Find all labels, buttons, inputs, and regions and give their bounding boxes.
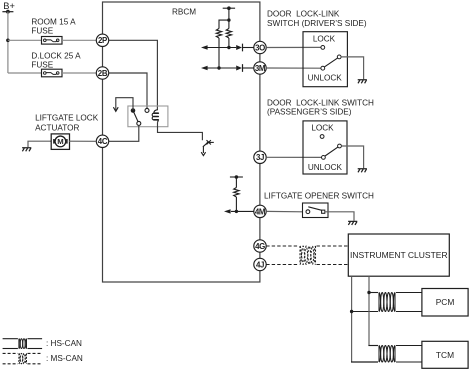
svg-text:ACTUATOR: ACTUATOR — [35, 123, 79, 132]
X mark — [207, 140, 211, 144]
relay common dot — [131, 108, 136, 113]
opener lever — [308, 207, 322, 211]
passenger switch box — [303, 121, 347, 174]
TCM box — [422, 341, 468, 368]
lever (driver) — [324, 58, 337, 67]
instrument cluster box — [348, 234, 449, 276]
svg-text:UNLOCK: UNLOCK — [308, 163, 343, 172]
diode D2 (3M) — [236, 66, 242, 71]
node 4M — [254, 205, 266, 217]
arrow left 4M row — [224, 209, 231, 213]
lever (passenger) — [325, 147, 338, 156]
fuse D.LOCK 25 A — [42, 69, 63, 77]
wire 3M row — [208, 67, 237, 69]
ground (actuator) — [22, 147, 31, 149]
ground (opener switch) — [348, 220, 357, 222]
svg-text:4M: 4M — [255, 207, 266, 216]
node 4J — [254, 258, 266, 270]
svg-text:D.LOCK 25 A: D.LOCK 25 A — [31, 52, 81, 61]
motor brush left — [53, 139, 55, 144]
arrow left 3O row — [201, 45, 208, 49]
svg-text:LIFTGATE LOCK: LIFTGATE LOCK — [35, 114, 99, 123]
junction dot PCM high — [367, 291, 370, 294]
wire 3M to UNLOCK contact — [266, 67, 321, 69]
resistor R3 — [234, 188, 239, 198]
B+ supply bar — [2, 11, 13, 13]
wire ROOM fuse to 2P — [62, 39, 96, 41]
wire cluster left drop (CAN-L) — [351, 276, 353, 362]
svg-text:LOCK: LOCK — [311, 124, 334, 133]
twisted pair HS-CAN to TCM — [378, 346, 380, 363]
wire 2P to relay coil — [109, 40, 158, 110]
wire PCM low — [352, 311, 378, 313]
wire PCM high — [369, 292, 378, 294]
wire bar down — [228, 8, 230, 20]
svg-text:2P: 2P — [98, 36, 107, 45]
svg-text:M: M — [57, 137, 63, 146]
svg-text:DOOR LOCK-LINK SWITCH: DOOR LOCK-LINK SWITCH — [267, 98, 374, 107]
pull-up bar dot — [227, 6, 231, 10]
wire 4M to opener switch — [266, 210, 302, 212]
svg-text:(PASSENGER’S SIDE): (PASSENGER’S SIDE) — [267, 107, 352, 116]
wire D1 to 3O — [243, 47, 254, 49]
fuse ROOM 15 A — [42, 37, 63, 45]
relay switch lever — [133, 111, 139, 124]
wire split to left resistor — [219, 20, 229, 28]
junction dot PCM low — [350, 310, 353, 313]
opener contact left — [306, 210, 310, 214]
arrow left 3M row — [201, 66, 208, 70]
legend MS-CAN wires — [3, 352, 18, 354]
node 3O — [254, 41, 266, 53]
svg-text:4C: 4C — [98, 137, 108, 146]
legend HS-CAN wires — [3, 338, 18, 340]
svg-text:UNLOCK: UNLOCK — [308, 73, 343, 82]
contact bottom (passenger) — [322, 156, 326, 160]
wire to D.LOCK fuse — [8, 72, 42, 74]
wire 4J dashed — [266, 264, 299, 266]
svg-text:2B: 2B — [98, 69, 108, 78]
wire R-right to 3O row — [228, 38, 230, 48]
wire 3J to switch — [266, 156, 321, 158]
ground (passenger switch) — [358, 168, 367, 170]
wire 2B to relay contact — [109, 73, 147, 109]
svg-text:FUSE: FUSE — [31, 27, 53, 36]
contact LOCK (passenger) — [320, 135, 324, 139]
ground (driver switch) — [358, 79, 367, 81]
relay coil — [154, 110, 158, 114]
wire pair to TCM top — [396, 345, 422, 347]
relay K1 box — [128, 106, 168, 127]
wire motor to 4C — [69, 140, 96, 142]
resistor R-left — [216, 29, 221, 39]
svg-text:3O: 3O — [255, 43, 265, 52]
svg-text:SWITCH (DRIVER’S SIDE): SWITCH (DRIVER’S SIDE) — [267, 19, 367, 28]
wire common to ground (passenger) — [341, 146, 363, 168]
junction dot 4M row — [235, 210, 238, 213]
wire braid to cluster bottom — [317, 264, 349, 266]
legend HS-CAN twisted pair — [18, 339, 20, 349]
wire pair to PCM top — [396, 292, 422, 294]
node 2B — [96, 67, 108, 79]
wire D.LOCK fuse to 2B — [62, 72, 96, 74]
contact LOCK (driver) — [321, 46, 325, 50]
svg-text:3J: 3J — [256, 153, 264, 162]
svg-text:PCM: PCM — [436, 297, 455, 307]
svg-text:LOCK: LOCK — [313, 34, 336, 43]
node 3J — [254, 151, 266, 163]
wire 4G dashed — [266, 245, 299, 247]
wire to ROOM fuse — [8, 39, 42, 41]
contact common (driver) — [337, 55, 341, 59]
wire opener to ground — [324, 212, 354, 221]
contact common (passenger) — [338, 144, 342, 148]
pull-up top bar — [223, 7, 235, 9]
svg-text:4J: 4J — [256, 260, 264, 269]
contact UNLOCK (driver) — [321, 66, 325, 70]
wire common to ground (driver) — [341, 57, 364, 79]
pull-up bar (4M) — [230, 176, 243, 178]
wire R-left to 3M row — [218, 38, 220, 68]
svg-text:TCM: TCM — [436, 350, 454, 360]
junction dot 3O row — [227, 46, 230, 49]
motor brush right — [66, 139, 68, 144]
wire pair to TCM bottom — [396, 361, 422, 363]
wire 4M row — [231, 210, 254, 212]
wire B+ vertical feed — [7, 12, 9, 73]
wire R3 to 4M row — [235, 197, 237, 211]
wire bar to resistor — [235, 177, 237, 188]
wire cluster right drop (CAN-H) — [368, 276, 370, 345]
driver switch box — [303, 32, 347, 87]
svg-text:4G: 4G — [255, 242, 265, 251]
RBCM box — [103, 2, 260, 282]
opener switch box — [303, 203, 329, 218]
node 4G — [254, 240, 266, 252]
switch lever with X — [203, 142, 209, 147]
wire actuator to ground — [28, 141, 51, 147]
svg-text:ROOM 15 A: ROOM 15 A — [31, 17, 76, 26]
wire pair to PCM bottom — [396, 311, 422, 313]
svg-text:3M: 3M — [255, 64, 266, 73]
arrowhead down (relay common) — [113, 107, 118, 111]
svg-text:B+: B+ — [3, 1, 15, 11]
twisted pair MS-CAN to cluster — [299, 246, 301, 265]
motor M1 box — [51, 134, 69, 150]
arrow down after switch — [202, 146, 204, 153]
relay switch contact — [137, 121, 141, 125]
wire D2 to 3M — [243, 67, 254, 69]
wire braid to cluster top — [317, 245, 349, 247]
svg-text:LIFTGATE OPENER SWITCH: LIFTGATE OPENER SWITCH — [264, 191, 374, 200]
svg-text:RBCM: RBCM — [172, 8, 196, 17]
resistor R-right — [226, 29, 231, 39]
wire relay common to arrow — [116, 98, 133, 111]
node 3M — [254, 62, 266, 74]
node branch dot to ROOM fuse — [6, 39, 10, 43]
legend MS-CAN twisted pair — [18, 353, 20, 363]
svg-text:DOOR LOCK-LINK: DOOR LOCK-LINK — [267, 10, 340, 19]
relay contact terminal (from 2B) — [145, 108, 149, 112]
node 4C — [96, 135, 108, 147]
twisted pair HS-CAN to PCM — [378, 293, 380, 312]
wire coil to switch X — [158, 122, 203, 140]
wire 3O to LOCK contact — [266, 46, 321, 48]
svg-text:: MS-CAN: : MS-CAN — [46, 354, 83, 363]
diode D1 (3O) — [236, 45, 242, 50]
split junction dot — [227, 18, 230, 21]
wire split to right resistor — [228, 20, 230, 28]
motor M1 circle — [55, 136, 66, 147]
svg-text:INSTRUMENT CLUSTER: INSTRUMENT CLUSTER — [350, 250, 448, 260]
node 2P — [96, 34, 108, 46]
wire 3O row — [208, 47, 237, 49]
junction dot 3M row — [217, 66, 220, 69]
wire relay to 4C — [109, 125, 139, 141]
PCM box — [422, 289, 468, 317]
B+ junction dot — [6, 10, 10, 14]
svg-text:FUSE: FUSE — [31, 60, 53, 69]
bar dot (4M) — [235, 175, 239, 179]
svg-text:: HS-CAN: : HS-CAN — [46, 339, 82, 348]
opener contact right — [322, 210, 325, 213]
